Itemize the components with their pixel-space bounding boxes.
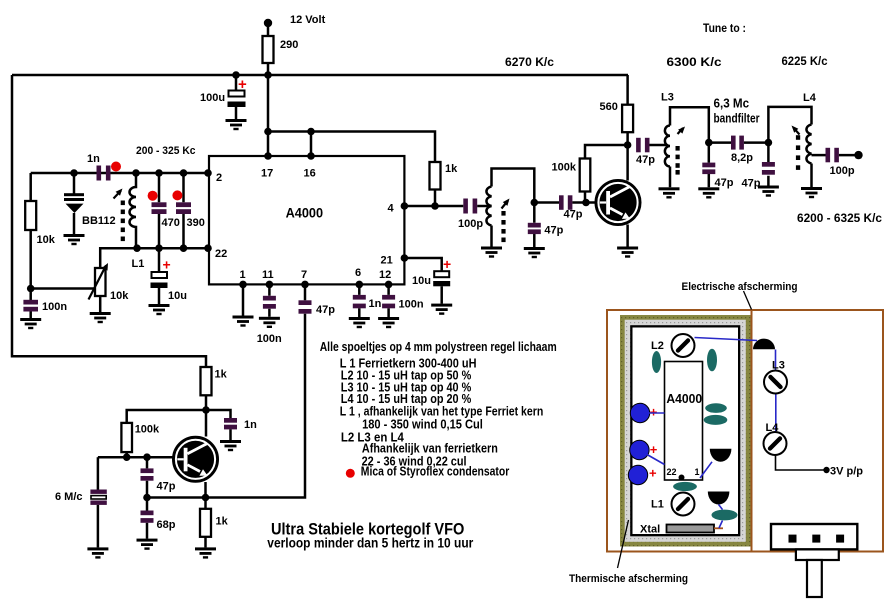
- ground: [137, 539, 158, 550]
- svg-text:10k: 10k: [37, 234, 56, 246]
- svg-text:A4000: A4000: [286, 205, 324, 221]
- transistor Q2 buffer: [596, 180, 640, 224]
- svg-text:560: 560: [600, 101, 618, 113]
- junction: [132, 169, 140, 177]
- junction: [202, 494, 210, 502]
- junction: [431, 202, 439, 210]
- wire pin 22 rail: [100, 248, 207, 268]
- wire collector node: [127, 410, 231, 437]
- svg-text:47p: 47p: [157, 481, 176, 493]
- junction: [582, 199, 590, 207]
- ground: [64, 234, 85, 245]
- svg-text:+: +: [163, 257, 171, 273]
- ground: [659, 187, 680, 198]
- wire 12V to resistor 290: [267, 23, 270, 36]
- capacitor 1n (collector decoupling): [224, 418, 237, 423]
- inductor L4: [768, 107, 811, 187]
- layout box (brown enclosure): [607, 310, 883, 552]
- capacitor 47p output series: [636, 138, 641, 153]
- resistor 100k (crystal osc bias): [121, 423, 132, 452]
- varicap diode BB112: [73, 173, 76, 194]
- svg-text:47p: 47p: [564, 209, 583, 221]
- wire supply to IC pins 17 16 and 1k: [268, 75, 435, 162]
- svg-text:1k: 1k: [215, 369, 228, 381]
- svg-text:6225 K/c: 6225 K/c: [782, 54, 828, 68]
- capacitor 47p at pin 7: [304, 284, 307, 300]
- svg-text:+: +: [650, 405, 658, 420]
- svg-text:100p: 100p: [458, 218, 483, 230]
- ground: [378, 317, 399, 328]
- capacitor 1n series (styroflex): [97, 166, 102, 181]
- ground: [87, 547, 108, 558]
- pin 7: [301, 281, 309, 289]
- svg-text:6270 K/c: 6270 K/c: [505, 55, 554, 69]
- svg-text:+: +: [238, 76, 247, 93]
- junction: [264, 71, 272, 79]
- junction: [143, 494, 151, 502]
- wire pin 4 output: [404, 205, 463, 208]
- capacitor 47p shunt (L3 node): [708, 143, 711, 188]
- ground: [233, 316, 254, 327]
- wire 100n node to potentiometer: [31, 287, 95, 290]
- junction L2 top node: [531, 199, 539, 207]
- coil blob L2 left: [652, 351, 661, 373]
- svg-text:Thermische afscherming: Thermische afscherming: [569, 573, 688, 585]
- gray inner frame: [625, 320, 746, 542]
- wire 100u to ground: [235, 107, 238, 119]
- black inner border: [630, 325, 740, 536]
- svg-text:390: 390: [187, 217, 205, 229]
- resistor 1k (crystal osc collector): [201, 367, 212, 395]
- wire pin 21 to 10u: [404, 258, 441, 271]
- svg-text:2: 2: [216, 172, 222, 184]
- resistor 100k (buffer bias): [585, 145, 628, 203]
- wire emitter to 1k: [204, 482, 207, 509]
- svg-text:22: 22: [215, 248, 227, 260]
- svg-text:47p: 47p: [742, 178, 761, 190]
- node output terminal: [854, 151, 862, 159]
- svg-text:47p: 47p: [636, 154, 655, 166]
- svg-text:100k: 100k: [552, 162, 577, 174]
- resistor 560: [626, 75, 629, 145]
- ground: [524, 247, 545, 258]
- capacitor 1n at pin 6: [358, 284, 361, 317]
- coil blob above L1: [673, 482, 697, 491]
- svg-text:L2: L2: [651, 340, 664, 352]
- layout divider wall: [751, 310, 753, 552]
- BNC connector shaft: [807, 560, 822, 597]
- ground: [349, 317, 370, 328]
- wire to 3V output: [776, 455, 825, 471]
- svg-text:Tune to :: Tune to :: [703, 21, 746, 35]
- capacitor 100n at pin 12: [387, 284, 390, 317]
- svg-text:6200 - 6325 K/c: 6200 - 6325 K/c: [797, 211, 882, 225]
- svg-text:47p: 47p: [715, 177, 734, 189]
- feedthrough dome D1: [753, 339, 775, 350]
- electrolytic blue C2: [630, 440, 649, 459]
- capacitor 68p: [146, 498, 149, 539]
- pin 17: [264, 152, 272, 160]
- svg-text:17: 17: [261, 168, 273, 180]
- svg-text:1n: 1n: [244, 419, 257, 431]
- svg-text:L3: L3: [772, 360, 785, 372]
- trimmer L3 (right cell): [764, 371, 787, 394]
- thermal shield khaki frame: [620, 315, 751, 547]
- svg-text:4: 4: [388, 203, 395, 215]
- junction: [180, 244, 188, 252]
- svg-text:100n: 100n: [257, 333, 282, 345]
- wire to output terminal: [839, 154, 857, 157]
- capacitor 47p shunt (second): [767, 143, 770, 186]
- wire pin7 cap to crystal oscillator emitter node: [147, 314, 305, 498]
- svg-text:6: 6: [355, 267, 361, 279]
- pin 22: [204, 244, 212, 252]
- pin 21: [401, 254, 409, 262]
- svg-text:47p: 47p: [544, 225, 563, 237]
- ground: [149, 304, 170, 315]
- pin 12: [385, 281, 393, 289]
- svg-text:Xtal: Xtal: [640, 524, 660, 536]
- svg-text:47p: 47p: [316, 304, 335, 316]
- svg-text:68p: 68p: [157, 519, 176, 531]
- pin 6: [356, 281, 364, 289]
- junction: [27, 285, 35, 293]
- electrolytic blue C1: [630, 403, 649, 422]
- junction: [232, 71, 240, 79]
- trimcap bowl D2: [710, 449, 732, 462]
- svg-text:6 M/c: 6 M/c: [55, 491, 83, 503]
- junction: [180, 169, 188, 177]
- coil blob near crystal: [712, 510, 738, 521]
- junction: [70, 169, 78, 177]
- ground: [195, 547, 216, 558]
- svg-text:1: 1: [695, 467, 700, 477]
- capacitor 47p shunt (L2 node): [533, 203, 536, 248]
- junction L3 top node: [705, 139, 713, 147]
- pin 2: [204, 169, 212, 177]
- resistor 290: [263, 36, 274, 63]
- junction: [155, 244, 163, 252]
- capacitor 10u electrolytic (pin 21): [434, 271, 449, 277]
- junction: [624, 141, 632, 149]
- svg-text:22: 22: [667, 467, 677, 477]
- layout IC A4000: [665, 362, 703, 481]
- pin 4: [401, 202, 409, 210]
- svg-text:1k: 1k: [216, 516, 229, 528]
- ground: [801, 187, 822, 198]
- svg-text:10u: 10u: [168, 290, 187, 302]
- svg-text:12: 12: [379, 269, 391, 281]
- junction: [133, 244, 141, 252]
- ground: [698, 187, 719, 198]
- capacitor 100p output tap: [812, 154, 826, 157]
- trimmer L4 (right cell): [764, 432, 787, 455]
- svg-text:16: 16: [304, 168, 316, 180]
- transistor Q1 crystal oscillator: [173, 437, 217, 481]
- svg-text:Mica of Styroflex condensator: Mica of Styroflex condensator: [361, 465, 510, 479]
- crystal 6 M/c: [97, 457, 100, 489]
- red dot legend bullet: [346, 469, 355, 478]
- svg-text:+: +: [443, 256, 451, 272]
- resistor 1k (emitter): [200, 509, 211, 537]
- svg-text:290: 290: [280, 39, 298, 51]
- svg-text:verloop minder dan 5 hertz in: verloop minder dan 5 hertz in 10 uur: [267, 536, 474, 551]
- svg-text:6300 K/c: 6300 K/c: [667, 55, 722, 69]
- svg-text:1k: 1k: [445, 163, 458, 175]
- wire main supply rail: [12, 63, 628, 75]
- BNC connector body: [771, 524, 857, 549]
- wire supply feedback to crystal oscillator: [12, 75, 206, 367]
- ground: [758, 186, 779, 197]
- svg-text:Electrische afscherming: Electrische afscherming: [682, 281, 798, 293]
- coil blob mid right 2: [704, 415, 728, 425]
- svg-text:1n: 1n: [87, 153, 100, 165]
- pin 1: [239, 281, 247, 289]
- junction: [123, 453, 131, 461]
- svg-text:470: 470: [162, 217, 180, 229]
- wire base row: [98, 456, 173, 459]
- ground: [20, 318, 41, 329]
- junction: [264, 128, 272, 136]
- svg-text:11: 11: [262, 269, 274, 281]
- capacitor 100n: [23, 300, 38, 305]
- svg-text:A4000: A4000: [666, 392, 702, 406]
- inductor L1: [130, 173, 136, 248]
- blue hookup wires: [647, 338, 776, 529]
- wire pin1 to ground: [242, 284, 245, 315]
- svg-text:10k: 10k: [110, 290, 129, 302]
- svg-text:7: 7: [301, 269, 307, 281]
- svg-text:+: +: [649, 466, 657, 481]
- coil blob L2 right: [707, 349, 717, 372]
- junction: [202, 406, 210, 414]
- wire 1k to pin4 node: [434, 190, 437, 207]
- capacitor 100p series: [463, 199, 468, 214]
- svg-text:6,3 Mc: 6,3 Mc: [714, 97, 750, 111]
- svg-text:100n: 100n: [399, 299, 424, 311]
- BNC connector neck: [796, 549, 839, 560]
- wire 100p to L2 tap: [477, 205, 491, 208]
- inductor L2: [486, 187, 491, 226]
- resistor 10k: [29, 173, 32, 300]
- svg-text:L1: L1: [132, 258, 145, 270]
- crystal block: [667, 525, 715, 533]
- svg-text:21: 21: [381, 255, 393, 267]
- ground: [259, 317, 280, 328]
- node 12 Volt supply terminal: [264, 19, 272, 27]
- svg-text:1n: 1n: [369, 298, 382, 310]
- IC U1 A4000: [209, 156, 404, 284]
- capacitor 470 (mica): [158, 173, 161, 248]
- svg-text:L 1 , afhankelijk van het type: L 1 , afhankelijk van het type Ferriet k…: [340, 405, 544, 419]
- capacitor 100n at pin 11: [268, 284, 271, 316]
- resistor 1k (pin 4 load): [430, 162, 441, 190]
- svg-text:100k: 100k: [135, 424, 160, 436]
- svg-text:100p: 100p: [830, 165, 855, 177]
- junction: [765, 139, 773, 147]
- capacitor 10u electrolytic (osc): [158, 248, 161, 272]
- svg-text:L4: L4: [766, 422, 780, 434]
- pin 16: [307, 152, 315, 160]
- capacitor 8,2p series: [709, 141, 731, 144]
- junction: [143, 453, 151, 461]
- ground: [481, 247, 502, 258]
- junction: [155, 169, 163, 177]
- capacitor 47p series to base: [534, 201, 559, 204]
- trimcap bowl D3: [708, 492, 730, 505]
- svg-text:L1: L1: [651, 499, 664, 511]
- ground: [226, 119, 247, 130]
- svg-text:1: 1: [240, 269, 246, 281]
- svg-text:100n: 100n: [42, 301, 67, 313]
- electrolytic blue C3: [628, 465, 647, 484]
- svg-text:8,2p: 8,2p: [731, 152, 753, 164]
- trimmer L2: [672, 334, 695, 357]
- svg-text:100u: 100u: [200, 92, 225, 104]
- svg-text:10u: 10u: [412, 275, 431, 287]
- svg-text:12 Volt: 12 Volt: [290, 14, 326, 26]
- svg-text:Alle spoeltjes op 4 mm polystr: Alle spoeltjes op 4 mm polystreen regel …: [320, 340, 557, 354]
- capacitor C 100u electrolytic: [235, 75, 238, 91]
- svg-text:200 - 325 Kc: 200 - 325 Kc: [136, 145, 196, 157]
- svg-text:L3: L3: [661, 92, 674, 104]
- svg-text:bandfilter: bandfilter: [714, 112, 760, 126]
- ground: [431, 304, 452, 315]
- svg-text:L4: L4: [803, 92, 817, 104]
- svg-text:3V p/p: 3V p/p: [830, 466, 863, 478]
- trimmer L1: [672, 493, 695, 516]
- pin 11: [266, 281, 274, 289]
- ground: [90, 312, 111, 323]
- capacitor 390 (mica): [182, 173, 185, 248]
- svg-text:+: +: [650, 442, 658, 457]
- ground: [220, 440, 241, 451]
- potentiometer 10k: [95, 268, 106, 296]
- junction: [307, 128, 315, 136]
- ground: [617, 247, 638, 258]
- svg-text:180 - 350 wind 0,15 Cul: 180 - 350 wind 0,15 Cul: [362, 418, 483, 432]
- wire oscillator top rail (pin 2): [31, 172, 207, 175]
- capacitor 47p (feedback divider): [146, 457, 149, 497]
- coil blob mid right 1: [705, 403, 727, 413]
- svg-text:BB112: BB112: [82, 215, 116, 227]
- inductor L3: [665, 126, 670, 167]
